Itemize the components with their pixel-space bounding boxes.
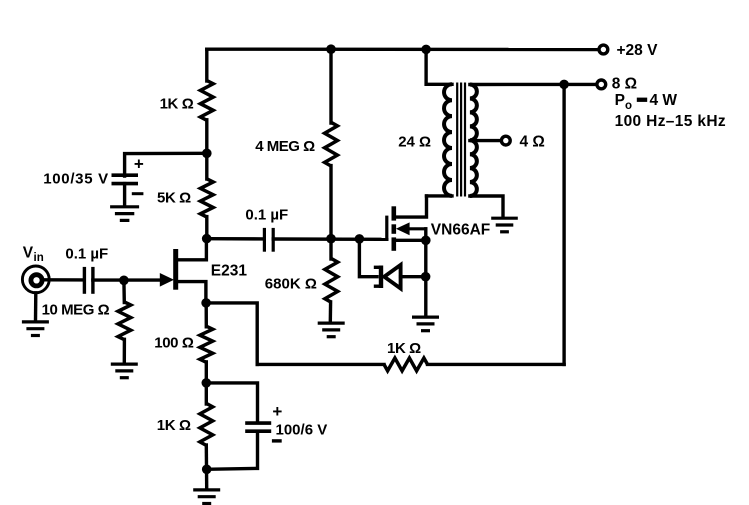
label 100 Ω (154, 334, 194, 351)
junction: zener / source column (421, 272, 431, 282)
junction: bypass cap tap (202, 149, 212, 159)
capacitor C1 0.1 µF input (84, 267, 93, 294)
wire: rail to 1K resistor (205, 49, 208, 81)
svg-text:4 MEG Ω: 4 MEG Ω (255, 138, 315, 155)
wire: Q2 source bar to column (396, 239, 426, 242)
svg-text:1K Ω: 1K Ω (160, 96, 194, 113)
ground: 10 MEG (111, 364, 138, 378)
junction: bottom node (202, 465, 212, 475)
label VN66AF (431, 221, 490, 238)
ground: input jack (22, 322, 49, 336)
label 4 MEG Ω (255, 138, 315, 155)
label 680K Ω (265, 276, 317, 293)
label − polarity C4 (272, 439, 282, 442)
svg-text:0.1 µF: 0.1 µF (245, 206, 288, 223)
svg-text:100 Ω: 100 Ω (154, 334, 194, 351)
wire: 10 MEG to ground (123, 339, 126, 363)
transformer T1 primary winding 24 Ω (444, 84, 452, 196)
terminal +28 V (599, 45, 608, 54)
junction: source node (201, 298, 211, 308)
resistor R7 1K feedback (384, 358, 428, 371)
resistor R8 1K (200, 403, 213, 445)
wire: source node to 100Ω (204, 303, 208, 327)
svg-text:4 Ω: 4 Ω (520, 134, 545, 151)
capacitor C3 0.1 µF (264, 228, 273, 252)
wire: rail to primary top (426, 49, 452, 84)
ground: C2 (110, 207, 139, 221)
label 100/35 V (43, 171, 109, 188)
label + polarity C2 (134, 155, 144, 174)
capacitor C2 100/35 V (112, 175, 139, 183)
resistor R5 10 MEG (118, 302, 131, 340)
wire: feedback vertical from 8Ω line (562, 84, 565, 364)
transistor Q1 E231 JFET (160, 249, 176, 290)
wire: 4 MEG to node B (329, 166, 332, 239)
wire: +28V supply rail (207, 48, 600, 52)
wire: C3 to MOSFET gate (273, 237, 387, 241)
label − polarity C2 (132, 192, 144, 195)
resistor R6 100 Ω (200, 326, 213, 362)
wire: secondary center tap (470, 139, 501, 142)
svg-text:+: + (272, 402, 282, 421)
wire: C1 to JFET gate arrow (93, 278, 161, 281)
junction: node A drain/divider/coupling (202, 234, 212, 244)
svg-text:+: + (134, 155, 144, 174)
resistor R3 4 MEG (325, 122, 338, 166)
connector Vin input jack (22, 266, 49, 293)
transformer core (457, 83, 465, 197)
wire: jack to ground (34, 293, 38, 321)
label 24 Ω (398, 133, 431, 150)
label Vin (23, 244, 44, 264)
wire: 5K to node A (205, 217, 208, 239)
wire: 680K to ground (329, 302, 333, 323)
wire: C4 bottom to bottom node (207, 431, 258, 469)
svg-text:100/6 V: 100/6 V (276, 421, 328, 438)
wire: 100Ω to 1K (205, 362, 208, 404)
wire: Q2 drain to transformer primary (396, 196, 427, 217)
wire: node to C4 top (206, 383, 257, 422)
transformer T1 secondary winding (470, 85, 477, 197)
ground: secondary (491, 218, 518, 232)
junction: node B zener branch (355, 234, 365, 244)
wire: rail to 4 MEG resistor (329, 49, 332, 123)
label 100 Hz–15 kHz (615, 113, 726, 130)
junction: feedback tap on 8Ω line (559, 80, 569, 90)
wire: feedback row left (257, 363, 384, 366)
svg-text:100 Hz–15 kHz: 100 Hz–15 kHz (615, 113, 726, 130)
svg-text:o: o (625, 100, 632, 112)
junction: node B 4MEG/680K (326, 234, 336, 244)
svg-text:10 MEG Ω: 10 MEG Ω (42, 302, 110, 319)
label 4 Ω (520, 134, 545, 151)
junction: input node 10 MEG tap (119, 276, 129, 286)
label 100/6 V (276, 421, 328, 438)
svg-text:VN66AF: VN66AF (431, 221, 490, 238)
label 1K Ω feedback (387, 340, 421, 357)
svg-text:8 Ω: 8 Ω (612, 76, 637, 93)
label + polarity C4 (272, 402, 282, 421)
wire: node B to 680K resistor (329, 239, 332, 259)
ground: bottom (193, 490, 220, 504)
wire: node A to capacitor C3 (207, 237, 264, 241)
wire: source node to feedback row (206, 303, 257, 365)
wire: input node to 10 MEG (122, 280, 126, 302)
label 1K Ω bottom (157, 417, 191, 434)
junction: 100Ω/1K/C4 node (202, 378, 212, 388)
junction: rail / 4 MEG resistor (326, 44, 336, 54)
label 1K Ω (160, 96, 194, 113)
resistor R4 680K (325, 259, 338, 303)
label 10 MEG Ω (42, 302, 110, 319)
svg-text:1K Ω: 1K Ω (157, 417, 191, 434)
svg-text:680K Ω: 680K Ω (265, 276, 317, 293)
svg-text:in: in (34, 252, 44, 264)
wire: source column to ground (424, 229, 427, 317)
wire: tap to capacitor C2 (125, 153, 207, 176)
svg-text:V: V (23, 244, 34, 261)
label 8 Ω (612, 76, 637, 93)
svg-text:+28 V: +28 V (617, 42, 659, 59)
wire: primary bottom to Q2 drain (427, 194, 453, 197)
svg-text:24 Ω: 24 Ω (398, 133, 431, 150)
svg-text:0.1 µF: 0.1 µF (65, 246, 108, 263)
label 0.1 µF interstage (245, 206, 288, 223)
label E231 (211, 263, 248, 280)
wire: node B to zener cathode (359, 239, 377, 277)
wire: JFET drain to node A (177, 240, 206, 260)
wire: JFET source to source node (177, 282, 206, 303)
ground: 680K (318, 323, 345, 337)
wire: 1K to bottom ground (205, 445, 209, 489)
junction: Q2 source (421, 236, 431, 246)
svg-text:P: P (615, 92, 625, 109)
svg-text:100/35 V: 100/35 V (43, 171, 109, 188)
ground: Q2 source (412, 317, 439, 331)
label 5K Ω (157, 190, 191, 207)
svg-text:E231: E231 (211, 263, 248, 280)
label +28 V (617, 42, 659, 59)
wire: secondary top to 8Ω terminal (470, 83, 597, 86)
wire: C2 to ground (123, 184, 126, 206)
wire: 1K to 5K resistor (205, 120, 208, 179)
transistor Q2 VN66AF VMOS (387, 206, 428, 251)
junction: rail / transformer primary (421, 45, 431, 55)
wire: feedback row right (428, 363, 565, 366)
zener diode D1 gate protection (374, 265, 401, 289)
label 0.1 µF input (65, 246, 108, 263)
label Po = 4 W (615, 92, 678, 112)
terminal 8 Ω output (597, 80, 606, 89)
svg-text:4 W: 4 W (650, 92, 678, 109)
svg-text:5K Ω: 5K Ω (157, 190, 191, 207)
resistor R1 1K (200, 81, 213, 121)
resistor R2 5K (200, 179, 213, 217)
terminal 4 Ω tap (501, 136, 510, 145)
svg-text:1K Ω: 1K Ω (387, 340, 421, 357)
wire: zener anode to source column (401, 275, 426, 278)
capacitor C4 100/6 V (245, 423, 271, 431)
wire: secondary bottom to ground (470, 196, 503, 218)
wire: jack to capacitor C1 (44, 278, 84, 282)
